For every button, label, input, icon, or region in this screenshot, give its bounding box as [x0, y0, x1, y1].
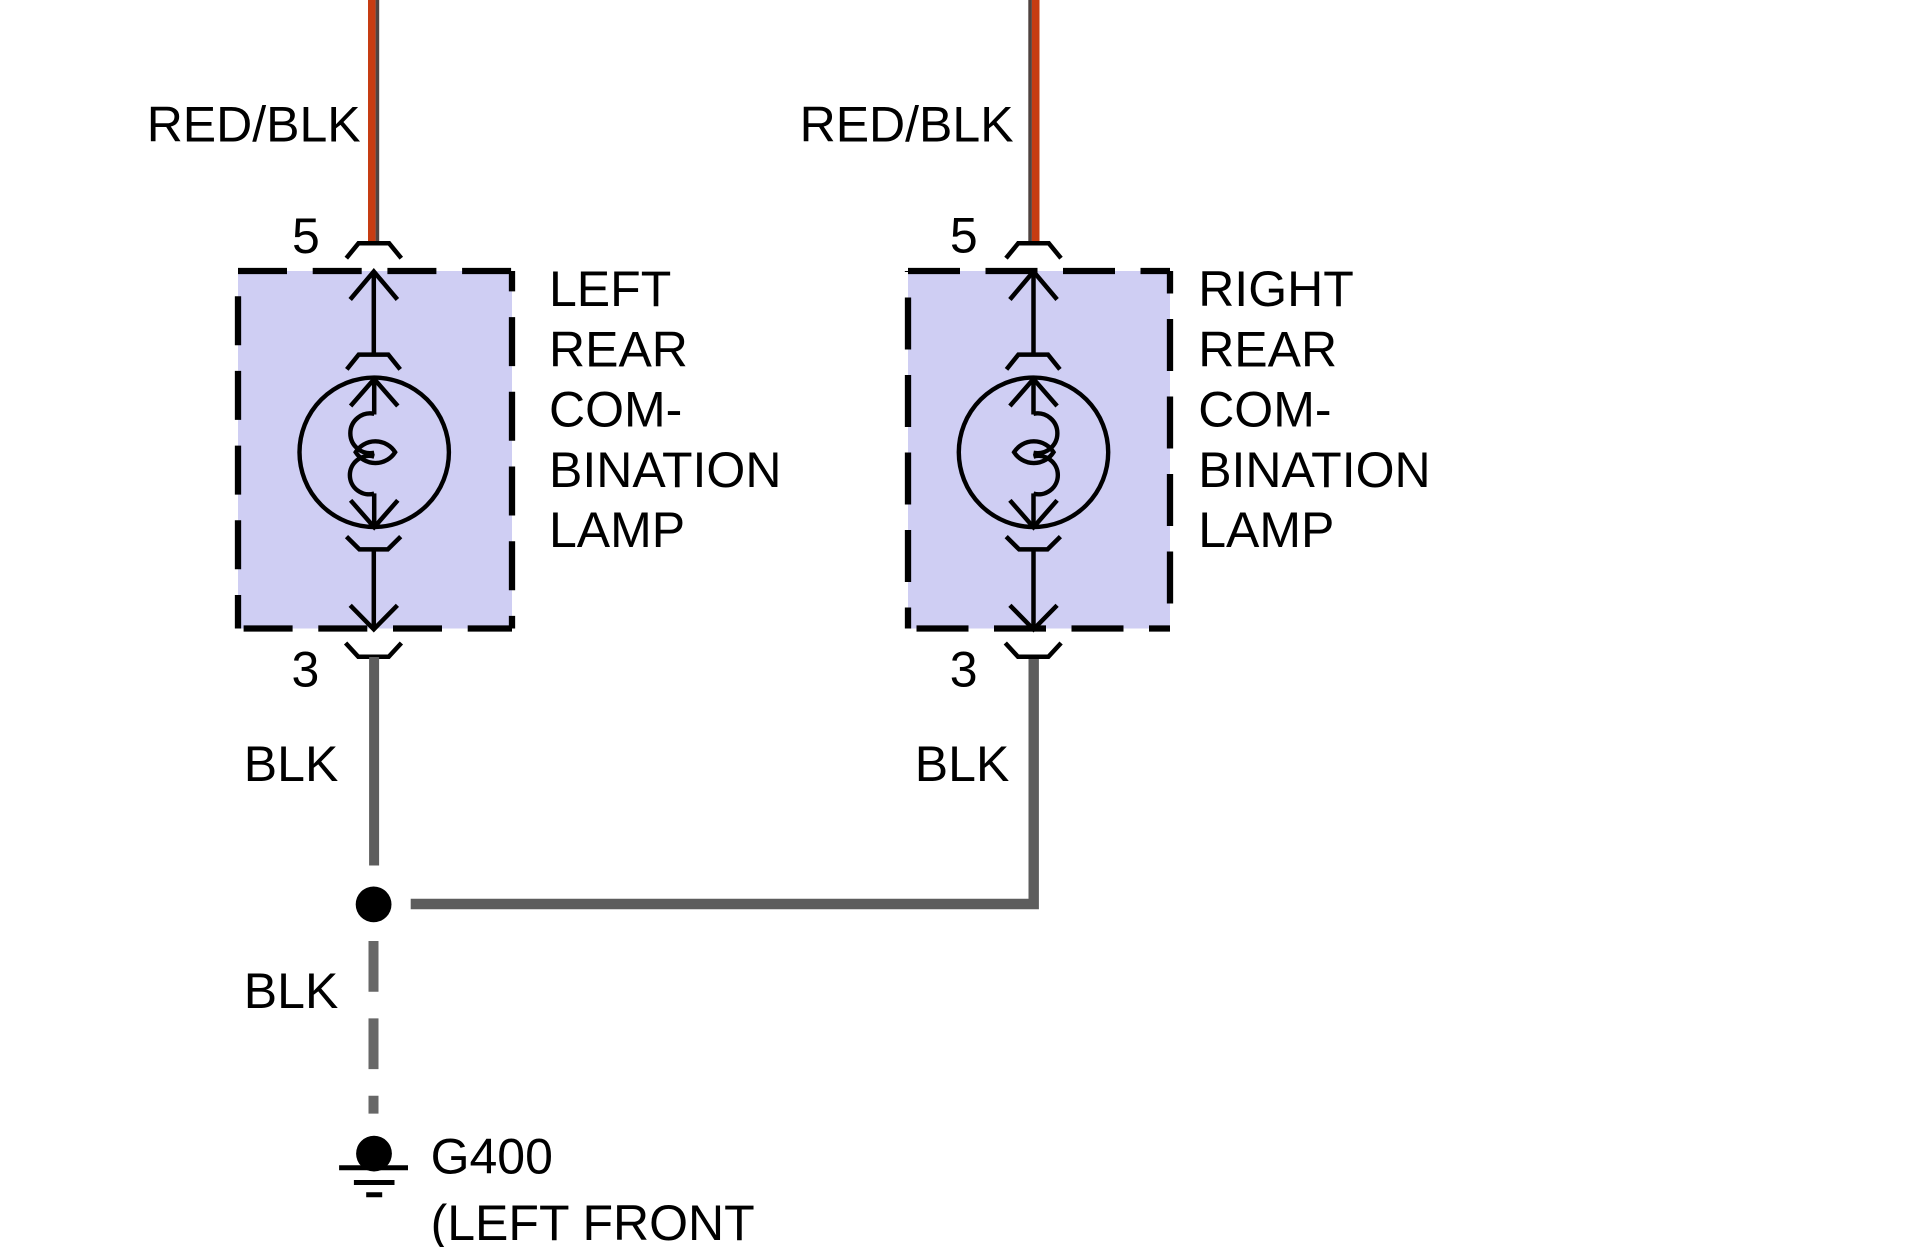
wire segment to bottom of left lamp with down arrow	[350, 549, 397, 629]
bulb circle right lamp	[959, 378, 1108, 527]
label (LEFT FRONT	[431, 1195, 755, 1247]
pin 5 label right	[950, 208, 978, 264]
svg-text:LAMP: LAMP	[1198, 502, 1334, 558]
arrow up at top of left lamp	[350, 272, 397, 355]
connector inside left lamp above bulb	[347, 355, 400, 370]
svg-text:BINATION: BINATION	[549, 442, 781, 498]
pin 3 label left	[292, 642, 320, 698]
connector inside left lamp below bulb	[347, 537, 401, 550]
wire RED/BLK left (vertical, red with black stripe)	[368, 0, 379, 244]
label BLK lower left	[244, 963, 339, 1019]
pin 5 label left	[292, 208, 320, 264]
label RED/BLK right	[800, 96, 1014, 152]
ground G400 symbol	[339, 1136, 408, 1195]
right rear combination lamp box	[908, 271, 1170, 629]
wire segment to bottom of right lamp with down arrow	[1010, 549, 1057, 629]
bulb top arrow left lamp	[351, 379, 398, 415]
svg-text:RED/BLK: RED/BLK	[147, 96, 361, 152]
arrow up at top of right lamp	[1010, 272, 1057, 355]
bulb bottom arrow right lamp	[1010, 493, 1057, 527]
svg-text:BINATION: BINATION	[1198, 442, 1430, 498]
svg-text:REAR: REAR	[1198, 321, 1337, 377]
wire BLK left vertical	[369, 657, 379, 866]
label BLK right	[915, 736, 1010, 792]
connector pin 5 left (female half)	[346, 243, 401, 258]
label G400	[431, 1128, 553, 1184]
svg-text:REAR: REAR	[549, 321, 688, 377]
svg-text:G400: G400	[431, 1128, 553, 1184]
connector pin 5 right (female half)	[1006, 243, 1061, 258]
svg-text:COM-: COM-	[1198, 382, 1331, 438]
connector inside right lamp above bulb	[1007, 355, 1060, 370]
svg-text:BLK: BLK	[244, 736, 339, 792]
wire BLK dashed to ground	[369, 941, 379, 1114]
svg-text:COM-: COM-	[549, 382, 682, 438]
svg-text:LAMP: LAMP	[549, 502, 685, 558]
svg-text:BLK: BLK	[244, 963, 339, 1019]
svg-text:5: 5	[292, 208, 320, 264]
junction node dot	[356, 887, 392, 923]
wire BLK horizontal and right vertical run	[411, 658, 1034, 904]
svg-text:(LEFT FRONT: (LEFT FRONT	[431, 1195, 755, 1247]
bulb filament left lamp	[350, 413, 395, 494]
bulb filament right lamp (mirrored)	[1014, 413, 1058, 494]
svg-text:BLK: BLK	[915, 736, 1010, 792]
connector inside right lamp below bulb	[1006, 537, 1060, 550]
left rear combination lamp box	[238, 271, 512, 629]
svg-text:3: 3	[950, 642, 978, 698]
wire RED/BLK right (vertical, black stripe left of red)	[1028, 0, 1039, 244]
svg-text:LEFT: LEFT	[549, 261, 671, 317]
bulb circle left lamp	[300, 378, 449, 527]
pin 3 label right	[950, 642, 978, 698]
label RED/BLK left	[147, 96, 361, 152]
svg-text:RED/BLK: RED/BLK	[800, 96, 1014, 152]
svg-text:3: 3	[292, 642, 320, 698]
label right lamp name	[1198, 261, 1430, 558]
bulb bottom arrow left lamp	[351, 493, 398, 527]
label left lamp name	[549, 261, 781, 558]
connector pin 3 left (female half)	[346, 643, 402, 657]
connector pin 3 right (female half)	[1005, 643, 1061, 657]
svg-text:5: 5	[950, 208, 978, 264]
svg-text:RIGHT: RIGHT	[1198, 261, 1354, 317]
bulb top arrow right lamp	[1010, 379, 1057, 415]
label BLK left	[244, 736, 339, 792]
